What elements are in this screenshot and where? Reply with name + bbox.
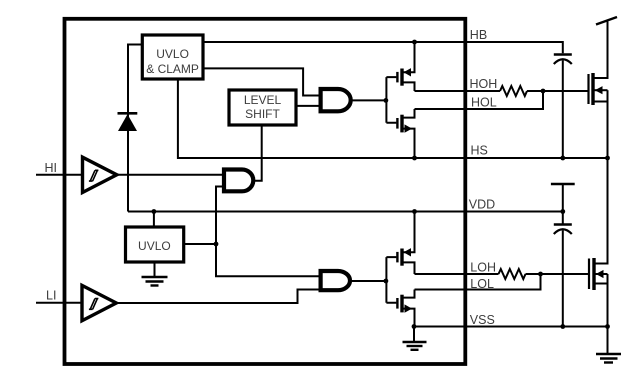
wire A2 output to high-side gate node xyxy=(351,99,387,101)
svg-text:& CLAMP: & CLAMP xyxy=(146,62,199,76)
wire HB rail (UVLO&CLAMP to bootstrap cap corner) xyxy=(203,42,563,53)
svg-text:LEVEL: LEVEL xyxy=(244,93,282,107)
node LOH/LOL tie xyxy=(538,272,543,277)
capacitor C2 VDD bypass xyxy=(554,212,572,327)
supply rail symbol (high voltage) xyxy=(596,17,617,25)
Schmitt buffer HI xyxy=(83,157,117,192)
wire UVLO top pin xyxy=(153,212,155,228)
transistor Q6 external low-side NMOS xyxy=(589,158,608,327)
capacitor C1 bootstrap (HB-HS) xyxy=(554,55,572,159)
transistor Q4 low-side NMOS pull-down xyxy=(397,290,414,327)
wire A3 output to low-side gate node xyxy=(350,280,386,282)
wire HI buffer output to AND A1 xyxy=(117,174,224,176)
svg-text:VSS: VSS xyxy=(470,313,495,327)
AND gate A2 (high side) xyxy=(321,89,351,111)
node UVLO-ok net junction xyxy=(214,242,219,247)
svg-text:HB: HB xyxy=(470,28,487,42)
wire LOL line out to LOH node xyxy=(415,274,541,290)
resistor R1 (HOH gate resistor) xyxy=(500,86,527,96)
AND gate A3 (low side) xyxy=(321,271,350,290)
svg-text:VDD: VDD xyxy=(469,198,495,212)
resistor R2 (LOH gate resistor) xyxy=(499,269,526,279)
svg-text:HS: HS xyxy=(471,144,488,158)
Schmitt buffer LI xyxy=(82,285,116,320)
wire UVLO&CLAMP left pin to diode/VDD vertical xyxy=(128,45,142,212)
svg-text:LI: LI xyxy=(46,289,56,303)
svg-text:HOL: HOL xyxy=(471,96,497,110)
node VSS/external source junction xyxy=(605,324,610,329)
svg-text:SHIFT: SHIFT xyxy=(245,107,280,121)
node VDD rail / low-side source xyxy=(412,209,417,214)
svg-text:UVLO: UVLO xyxy=(156,47,189,61)
svg-text:UVLO: UVLO xyxy=(138,239,171,253)
node Q2 source on HS xyxy=(412,156,417,161)
transistor Q2 high-side NMOS pull-down xyxy=(397,109,414,158)
node Q4 source on VSS xyxy=(412,324,417,329)
wire VSS rail xyxy=(414,326,608,328)
wire gate node to Q5 gate xyxy=(543,90,589,92)
wire gate node to Q6 gate xyxy=(541,273,590,275)
svg-text:HI: HI xyxy=(45,161,58,175)
wire R2 to gate node xyxy=(526,273,541,275)
node C1/HS junction xyxy=(560,156,565,161)
wire R1 to gate node xyxy=(527,90,543,92)
wire A1 output to LEVEL SHIFT bottom pin xyxy=(253,125,261,181)
transistor Q5 external high-side NMOS xyxy=(589,22,608,159)
ground under UVLO xyxy=(142,262,168,286)
ground internal (VSS) xyxy=(403,327,427,350)
wire LOH line to resistor xyxy=(415,273,499,275)
node low-side gate xyxy=(384,279,389,284)
wire UVLO-ok net vertical (A1 input to A3 input) xyxy=(216,187,321,277)
wire HOH line to resistor xyxy=(415,90,501,92)
ground external xyxy=(596,327,621,363)
node VDD external junction xyxy=(560,209,565,214)
transistor Q3 low-side PMOS pull-up xyxy=(397,212,414,275)
node VDD/UVLO junction xyxy=(152,209,157,214)
node HOH/HOL tie xyxy=(541,89,546,94)
wire LEVEL SHIFT right pin to AND A2 xyxy=(296,105,321,107)
node high-side gate xyxy=(384,98,389,103)
node switch node HS xyxy=(605,156,610,161)
svg-text:HOH: HOH xyxy=(470,77,498,91)
node HB rail / driver source junction xyxy=(412,40,417,45)
node VSS/C2 junction xyxy=(560,324,565,329)
wire VDD rail xyxy=(128,211,563,213)
wire UVLO right pin xyxy=(184,243,216,245)
wire UVLO&CLAMP bottom pin + HS rail xyxy=(178,79,608,158)
IC boundary xyxy=(65,19,466,364)
wire LI buffer output to AND A3 xyxy=(116,290,321,304)
wire HI input xyxy=(36,174,83,176)
transistor Q1 high-side PMOS pull-up xyxy=(397,42,414,91)
wire high-side gate vertical xyxy=(386,77,396,123)
UVLO block xyxy=(126,227,184,262)
AND gate A1 (HI qualify) xyxy=(224,170,253,192)
wire LI input xyxy=(36,302,82,304)
LEVEL SHIFT block xyxy=(229,90,296,125)
UVLO & CLAMP block xyxy=(142,35,203,79)
svg-text:LOH: LOH xyxy=(470,260,496,274)
wire UVLO&CLAMP lower output to high-side AND input xyxy=(203,68,321,95)
wire low-side gate vertical xyxy=(386,257,396,303)
wire HOL line out to HOH node xyxy=(415,91,544,109)
bootstrap diode D1 xyxy=(118,113,138,131)
VDD terminal bar xyxy=(551,184,575,212)
